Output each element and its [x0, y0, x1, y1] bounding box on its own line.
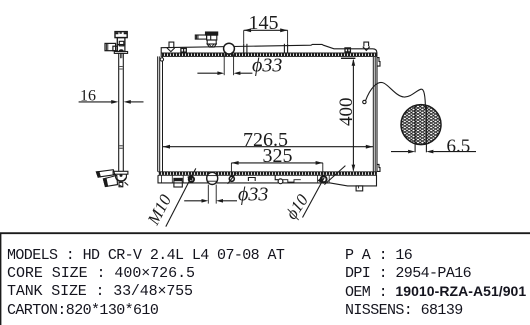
right edge bracket top: [377, 58, 380, 67]
leader M10: [143, 168, 196, 228]
small tab pair left: [181, 48, 186, 52]
wavy leader curve: [366, 82, 426, 109]
right edge bracket bottom: [377, 164, 380, 171]
svg-text:400: 400: [336, 98, 357, 127]
bracket tab at 145 right: [284, 44, 287, 53]
svg-text:ϕ33: ϕ33: [252, 55, 282, 77]
table left border: [0, 233, 2, 325]
table row CARTON: [7, 303, 158, 318]
bottom serration strip: [158, 172, 377, 176]
table top rule: [0, 232, 530, 234]
svg-text:325: 325: [263, 145, 293, 167]
table row TANK SIZE: [7, 284, 193, 299]
bottom outlet port (phi 33): [207, 172, 218, 184]
side view core bar: [119, 53, 124, 171]
bottom right foot: [356, 186, 363, 191]
top port circle: [224, 43, 235, 54]
dimension phi33 bottom: [184, 184, 268, 206]
phi10 port: [318, 175, 330, 182]
small tab pair right: [345, 48, 350, 52]
dimension phi33 top: [197, 54, 282, 76]
table row PA: [345, 248, 412, 263]
side view filler neck: [114, 41, 127, 53]
bottom left foot: [174, 178, 182, 187]
dimension 6.5: [391, 136, 476, 157]
table row DPI: [345, 266, 471, 281]
small bottom tab rect: [248, 178, 255, 182]
bracket tab at 145 left: [244, 44, 247, 53]
right mounting pin tab: [363, 42, 370, 50]
table row MODELS: [7, 248, 284, 263]
top serration strip: [161, 53, 377, 56]
bottom tank outline: [158, 175, 377, 186]
dimension 16: [79, 87, 144, 104]
svg-text:6.5: 6.5: [447, 136, 471, 157]
svg-text:ϕ33: ϕ33: [238, 184, 268, 206]
fin detail circle: [401, 105, 441, 153]
small ring on left edge: [160, 58, 163, 61]
dimension 145: [244, 12, 288, 44]
svg-text:145: 145: [249, 12, 279, 34]
side view filler cap: [115, 32, 127, 45]
M10 port: [189, 177, 194, 182]
table row OEM: [345, 284, 526, 300]
center bracket with ring: [275, 175, 301, 183]
table row CORE SIZE: [7, 266, 195, 281]
leader phi10: [282, 166, 346, 223]
main view top tank outline: [161, 44, 377, 56]
small port ring at 325 left: [228, 173, 237, 184]
filler neck on tank: [195, 32, 217, 47]
table row NISSENS: [345, 303, 463, 318]
right side plate: [373, 57, 377, 172]
side view inlet pipe: [105, 43, 117, 50]
svg-text:ϕ10: ϕ10: [282, 190, 313, 222]
svg-text:M10: M10: [143, 191, 175, 229]
leader ring on core: [363, 100, 366, 103]
left side plate: [158, 56, 163, 171]
dimension 400: [336, 58, 357, 171]
side view bottom bracket: [96, 170, 128, 187]
dimension 726.5: [163, 129, 373, 151]
left mounting pin tab: [167, 42, 175, 52]
dimension 325: [231, 145, 322, 176]
